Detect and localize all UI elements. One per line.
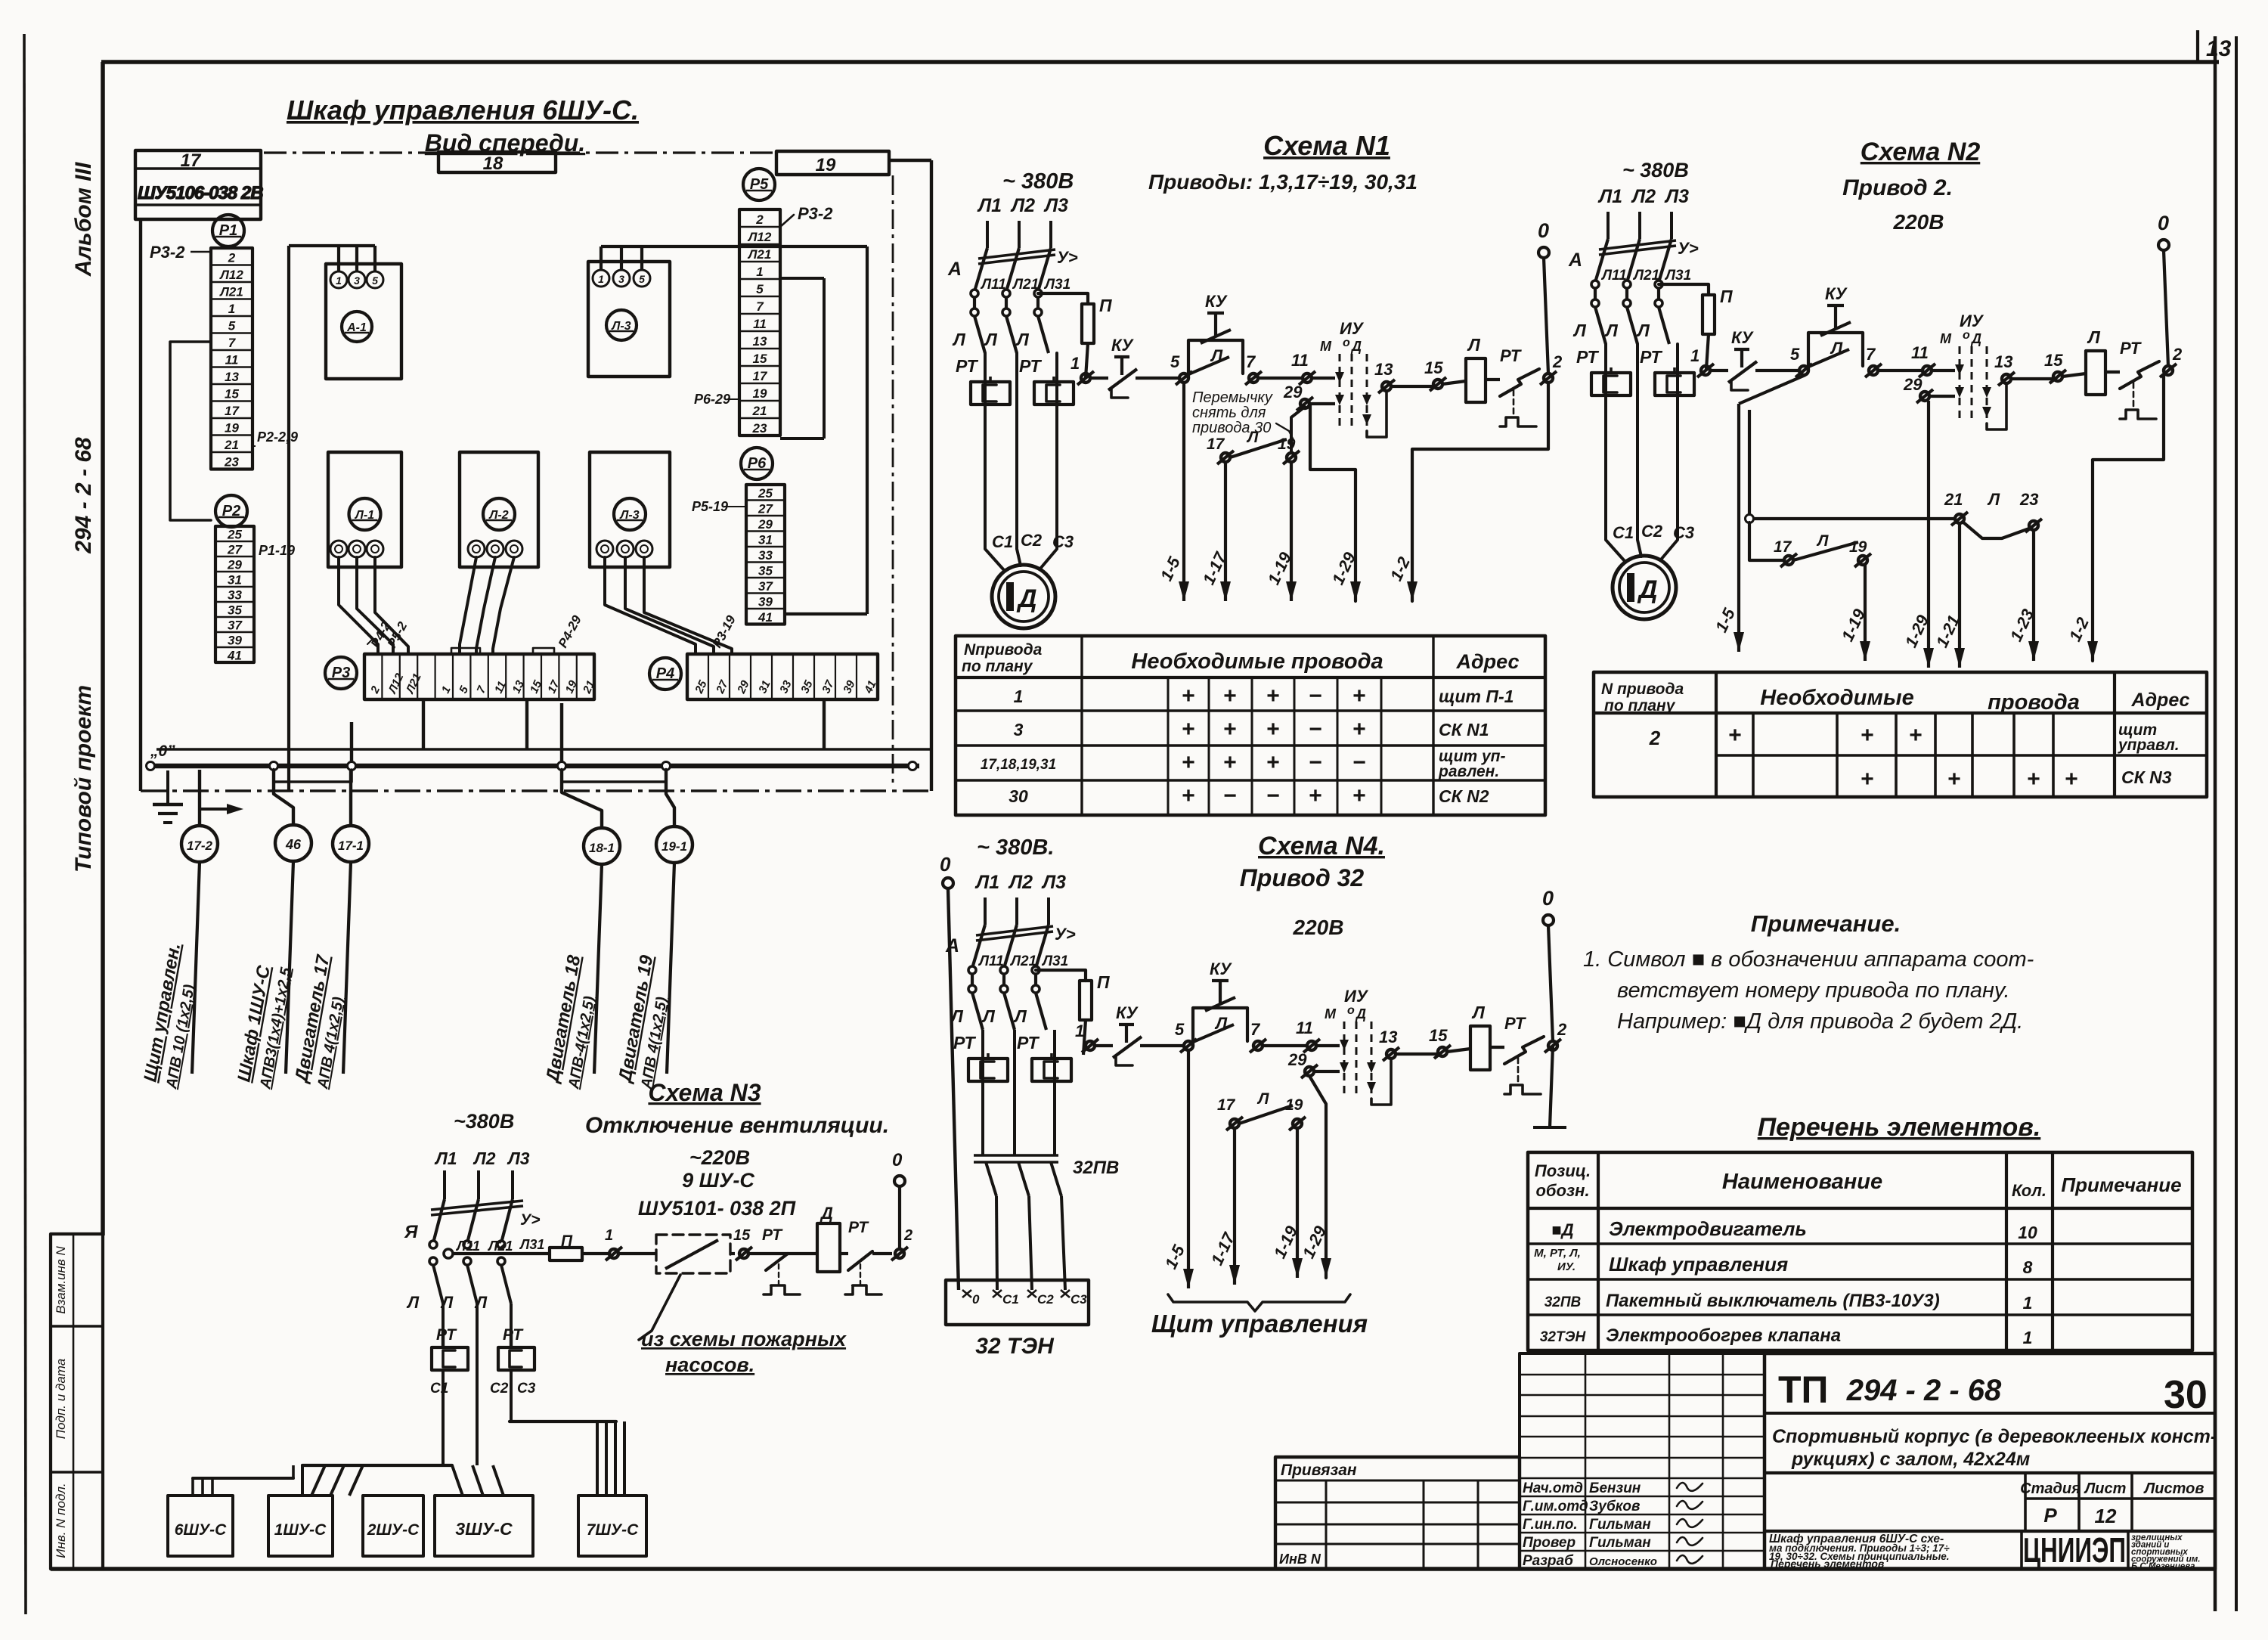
svg-text:7: 7 [1866,345,1876,364]
svg-text:15: 15 [753,352,767,366]
svg-text:Д: Д [1355,1006,1366,1022]
svg-text:Л1: Л1 [974,872,999,893]
svg-text:Подп. и дата: Подп. и дата [54,1359,68,1439]
svg-text:39: 39 [758,594,773,609]
scheme N2 wire to panel 1-5 [1739,375,1805,404]
svg-text:КУ: КУ [1205,292,1228,311]
scheme N2 holding branch [1746,515,1754,523]
svg-text:−: − [1309,717,1322,742]
scheme N1 contactor contacts L [973,297,976,308]
svg-text:+: + [1182,684,1195,708]
cable label Dvigatel 18 [541,953,605,1091]
svg-text:2: 2 [1557,1020,1567,1039]
svg-text:29: 29 [1903,375,1923,394]
svg-text:30: 30 [1009,786,1028,806]
svg-text:ЦНИИЭП: ЦНИИЭП [2023,1530,2126,1570]
svg-text:Гильман: Гильман [1589,1535,1651,1551]
svg-text:Д: Д [1350,339,1362,354]
svg-text:Л11: Л11 [1600,268,1627,284]
svg-text:Л: Л [1256,1090,1269,1108]
svg-text:привода 30: привода 30 [1192,420,1271,436]
scheme N4 wire to panel 1-29 [1309,1076,1326,1278]
svg-text:Л21: Л21 [404,671,424,696]
svg-text:2: 2 [1552,352,1563,371]
wires L-1 to terminal block [339,557,378,654]
svg-text:РТ: РТ [762,1226,783,1244]
svg-text:по плану: по плану [1604,697,1676,715]
svg-text:Nпривода: Nпривода [964,641,1043,659]
svg-text:3: 3 [354,274,360,287]
scheme N3 remote contact (dashed box) [656,1235,730,1273]
svg-text:19: 19 [225,420,239,435]
svg-text:15: 15 [1429,1026,1448,1045]
svg-text:5: 5 [228,318,236,333]
svg-text:9 ШУ-С: 9 ШУ-С [682,1169,754,1192]
svg-text:21: 21 [1944,490,1963,509]
svg-text:обозн.: обозн. [1535,1181,1589,1200]
inner rail [156,748,931,751]
svg-text:7: 7 [756,299,764,314]
svg-text:294 - 2 - 68: 294 - 2 - 68 [71,437,96,554]
svg-text:19: 19 [816,155,836,175]
svg-text:17: 17 [225,404,240,418]
svg-text:СК N2: СК N2 [1439,786,1489,806]
svg-text:Адрес: Адрес [1455,650,1519,673]
svg-text:27: 27 [758,501,773,516]
svg-text:Л2: Л2 [1631,186,1656,207]
svg-text:С3: С3 [517,1381,536,1397]
svg-text:Схема N2: Схема N2 [1861,138,1981,166]
scheme N3 leader from pump scheme [639,1275,680,1340]
wires L-2 to terminal block [460,557,476,654]
svg-text:Р3-2: Р3-2 [150,243,185,262]
svg-text:13: 13 [753,334,767,349]
terminal strip P1-19 (left lower) [215,526,254,662]
scheme N4 wires to 32TEN [996,1196,997,1290]
svg-text:равлен.: равлен. [1438,763,1499,780]
svg-text:46: 46 [285,837,302,852]
scheme N2 stop button KU [1710,369,1728,372]
svg-text:Позиц.: Позиц. [1535,1161,1591,1180]
svg-text:8: 8 [2023,1257,2033,1277]
svg-text:■Д: ■Д [1551,1220,1573,1239]
svg-text:+: + [1728,723,1742,748]
svg-text:Я: Я [404,1222,418,1242]
cable circle 17-1 [349,770,352,826]
svg-text:3: 3 [1014,720,1024,739]
svg-text:Схема N1: Схема N1 [1263,130,1390,161]
svg-text:5: 5 [1175,1020,1185,1039]
svg-text:Б.С.Мезенцева: Б.С.Мезенцева [2131,1562,2195,1571]
scheme N4 heater box 32TEN [946,1280,1089,1325]
svg-text:Необходимые: Необходимые [1760,686,1913,710]
svg-text:Листов: Листов [2143,1480,2204,1497]
svg-text:из схемы пожарных: из схемы пожарных [641,1328,847,1350]
drawing frame border [101,60,2219,64]
svg-text:Лист: Лист [2084,1480,2127,1497]
svg-text:11: 11 [1911,343,1929,362]
svg-text:о: о [1343,336,1350,349]
sheet number 13 [2196,30,2199,62]
svg-text:17-1: 17-1 [338,839,364,853]
bus loop links [274,770,352,782]
svg-text:Д: Д [820,1204,833,1223]
svg-text:С2: С2 [1037,1292,1054,1307]
svg-text:Л: Л [1246,429,1259,446]
svg-text:Л: Л [984,330,998,349]
wire bundle to 7ShU-S [510,1420,616,1423]
svg-text:Л3: Л3 [1041,872,1066,893]
cable circle 17-2 [198,770,201,826]
svg-text:Л1: Л1 [1597,186,1622,207]
svg-text:11: 11 [1291,351,1309,370]
cabinet box 6ShU-S [168,1496,233,1556]
cable label Dvigatel 19 [614,953,677,1091]
svg-text:12: 12 [2095,1505,2117,1527]
wire rail over 3ShU-S [302,1464,452,1467]
svg-text:1: 1 [1690,346,1699,365]
svg-text:2: 2 [228,250,236,265]
bottom-left stamp column [51,1234,103,1569]
title block organization logo TSNIIEP [2020,1531,2023,1569]
svg-text:+: + [1182,750,1195,775]
svg-text:У>: У> [1055,925,1076,944]
svg-text:КУ: КУ [1111,336,1135,355]
svg-text:−: − [1223,783,1237,808]
svg-text:С3: С3 [1070,1292,1087,1307]
svg-text:ИУ.: ИУ. [1557,1260,1576,1273]
svg-text:35: 35 [798,678,816,696]
svg-text:41: 41 [227,648,242,662]
svg-text:Р6-29: Р6-29 [694,392,730,407]
svg-text:+: + [1182,783,1195,808]
svg-text:А: А [947,259,962,280]
svg-text:Например: ■Д для привода 2 б: Например: ■Д для привода 2 будет 2Д. [1617,1009,2023,1034]
svg-text:Л3: Л3 [507,1149,530,1168]
svg-text:0: 0 [972,1292,980,1307]
svg-text:23: 23 [2019,490,2038,509]
dash-dot inner boundary [892,175,894,786]
svg-text:~380В: ~380В [454,1110,514,1133]
svg-text:5: 5 [639,273,645,285]
svg-text:25: 25 [692,678,710,696]
bottom terminal block P4 [649,658,681,690]
cable circle 19-1 [666,770,674,826]
scheme N3 phase stubs [443,1170,446,1199]
svg-text:2: 2 [2172,345,2183,364]
svg-text:У>: У> [1057,248,1078,267]
svg-text:35: 35 [758,563,773,578]
svg-text:РТ: РТ [2120,339,2142,358]
wire left riser [287,246,290,791]
svg-text:Л3: Л3 [1043,195,1068,216]
svg-text:Л: Л [950,1006,964,1026]
svg-text:25: 25 [227,527,242,541]
terminal strip side link [170,342,211,520]
svg-text:РТ: РТ [503,1326,524,1344]
svg-text:−: − [1309,684,1322,708]
scheme N1 wiring table [956,636,1545,815]
svg-text:13: 13 [2206,36,2232,61]
svg-text:0: 0 [1538,219,1549,242]
svg-text:29: 29 [227,557,242,572]
device symbol P1 [212,215,244,246]
svg-text:27: 27 [714,678,731,696]
scheme N1 wire to panel 1-5 [1182,383,1185,601]
svg-text:+: + [2065,767,2078,792]
svg-text:7: 7 [1246,352,1256,371]
svg-text:+: + [1947,767,1961,792]
svg-text:С2: С2 [1641,522,1663,541]
svg-text:27: 27 [227,542,243,556]
svg-text:0: 0 [1542,887,1554,910]
svg-text:33: 33 [228,587,242,602]
svg-text:13: 13 [225,370,239,384]
svg-text:М: М [1320,339,1332,354]
svg-text:М: М [1940,331,1952,346]
cable circle 46 [274,770,293,825]
svg-text:Л11: Л11 [455,1239,480,1254]
svg-text:7: 7 [475,684,489,695]
svg-text:Л: Л [1572,321,1587,340]
svg-text:Л21: Л21 [487,1239,513,1254]
svg-text:провода: провода [1988,690,2080,715]
svg-text:Наименование: Наименование [1722,1170,1882,1194]
svg-text:−: − [1309,750,1322,775]
svg-text:щит П-1: щит П-1 [1439,687,1514,706]
svg-text:Д: Д [1637,575,1658,604]
svg-text:Л21: Л21 [218,284,243,299]
svg-text:рукциях) с залом, 42х24м: рукциях) с залом, 42х24м [1791,1449,2030,1470]
svg-text:Нач.отд: Нач.отд [1523,1480,1583,1496]
svg-text:~ 380В: ~ 380В [1622,159,1689,181]
scheme N1 wire to panel 1-17 [1224,462,1227,601]
svg-text:+: + [1861,767,1874,792]
svg-text:2: 2 [903,1227,912,1244]
svg-text:СК N1: СК N1 [1439,720,1489,739]
cabinet outline [139,219,142,791]
header box 18 [438,152,556,172]
svg-text:~220В: ~220В [689,1146,750,1169]
svg-text:Л1: Л1 [977,195,1002,216]
scheme N1 wire to panel 1-29 [1310,404,1356,601]
scheme N4 start button KU [1193,1008,1247,1046]
svg-text:ИУ: ИУ [1340,319,1365,338]
svg-text:Инв. N подл.: Инв. N подл. [54,1483,68,1558]
svg-text:Р2-2;9: Р2-2;9 [257,429,298,445]
svg-text:+: + [1266,717,1280,742]
svg-text:Л: Л [1604,321,1619,340]
svg-text:2ШУ-С: 2ШУ-С [367,1521,420,1539]
svg-text:29: 29 [735,678,752,696]
svg-text:18: 18 [483,153,503,174]
svg-text:15: 15 [2044,351,2063,370]
svg-text:Л2: Л2 [1010,195,1035,216]
scheme N3 wires to cabinets [442,1331,445,1347]
svg-text:32ПВ: 32ПВ [1073,1158,1119,1178]
svg-text:15: 15 [733,1227,751,1244]
scheme N1 start button KU [1188,340,1243,378]
svg-text:+: + [2027,767,2040,792]
svg-text:5: 5 [1170,352,1180,371]
svg-text:П: П [1099,296,1112,315]
svg-text:Бензин: Бензин [1589,1480,1641,1496]
svg-text:+: + [1223,717,1237,742]
svg-text:Необходимые провода: Необходимые провода [1131,649,1383,674]
svg-text:0: 0 [2158,212,2169,234]
scheme N2 wire to panel 1-21 [1958,523,1961,668]
zero bus [150,764,919,769]
svg-text:Л: Л [1015,330,1030,349]
svg-text:33: 33 [777,678,795,696]
svg-text:+: + [1266,684,1280,708]
svg-text:41: 41 [758,610,773,625]
svg-text:РТ: РТ [1576,347,1599,367]
title block main area [1765,1353,2215,1569]
wires L-3 to right terminal block [605,557,696,654]
scheme N4 wire to panel 1-19 [1296,1128,1299,1278]
svg-text:6ШУ-С: 6ШУ-С [175,1521,227,1539]
svg-text:Схема N4.: Схема N4. [1258,832,1385,860]
header box 17 / ShU5106-038.2V [135,150,261,219]
svg-text:РТ: РТ [953,1033,976,1053]
scheme N4 zero line extension [1550,1046,1553,1127]
wire from A-1 to left riser [337,246,340,271]
svg-text:+: + [1352,684,1366,708]
svg-text:21: 21 [752,404,767,418]
svg-text:5: 5 [756,282,764,296]
cable label Shchit upravlen [139,941,204,1091]
wire rail to 6ShU-S [193,1477,293,1480]
svg-text:13: 13 [510,678,527,696]
scheme N1 motor D [992,565,1055,628]
svg-text:Л21: Л21 [1632,268,1659,284]
svg-text:Щит управления: Щит управления [1151,1310,1368,1338]
svg-text:Электрообогрев клапана: Электрообогрев клапана [1606,1325,1841,1346]
svg-text:17: 17 [1207,436,1225,453]
svg-text:−: − [1266,783,1280,808]
svg-text:1: 1 [228,302,235,316]
svg-text:КУ: КУ [1731,328,1755,347]
svg-text:Стадия: Стадия [2020,1480,2081,1497]
svg-text:17: 17 [1217,1096,1236,1114]
scheme N4 phase stubs [984,898,987,925]
svg-text:1: 1 [2023,1328,2033,1347]
svg-text:1: 1 [1070,354,1080,373]
svg-text:ветствует номеру привода по: ветствует номеру привода по плану. [1617,978,2010,1003]
svg-text:+: + [1861,723,1874,748]
scheme N4 stop button KU [1095,1044,1113,1047]
scheme N4 pole wires down [981,1030,984,1155]
svg-text:17-2: 17-2 [187,839,213,853]
svg-text:1: 1 [598,273,604,285]
cable label Shkaf 1ShU-S [233,962,295,1091]
svg-text:Л1: Л1 [434,1149,457,1168]
svg-text:С1: С1 [1613,523,1634,542]
cable label Dvigatel 17 [290,953,354,1091]
wire from L-3 upper to right riser [600,246,603,270]
svg-text:Л12: Л12 [386,671,407,696]
svg-text:Л: Л [1636,321,1650,340]
cable circle 18-1 [562,770,602,828]
svg-text:С1: С1 [1002,1292,1019,1307]
svg-text:29: 29 [1283,383,1303,401]
svg-text:Р5-19: Р5-19 [692,499,728,514]
title block signature grid [1520,1353,1765,1569]
svg-text:1. Символ ■ в обозначении апп: 1. Символ ■ в обозначении аппарата соот- [1583,947,2034,972]
svg-text:~ 380В: ~ 380В [1002,169,1074,194]
svg-text:РТ: РТ [1017,1033,1039,1053]
svg-text:Приводы: 1,3,17÷19, 30,31: Приводы: 1,3,17÷19, 30,31 [1148,170,1417,194]
device symbol P6 [741,448,773,479]
svg-text:37: 37 [820,678,837,696]
svg-text:10: 10 [2018,1223,2037,1242]
svg-text:А: А [1568,250,1582,271]
svg-text:Л12: Л12 [218,268,243,282]
contactor unit A-1 [326,264,401,379]
svg-text:Перечень элементов.: Перечень элементов. [1758,1113,2041,1142]
svg-text:ИУ: ИУ [1344,987,1369,1006]
svg-text:5: 5 [457,684,471,695]
svg-text:32 ТЭН: 32 ТЭН [975,1334,1055,1359]
svg-text:Л: Л [2087,327,2101,347]
svg-text:Л: Л [474,1293,488,1312]
svg-text:~ 380В.: ~ 380В. [977,836,1054,860]
header box 19 [776,151,889,175]
svg-text:Р4-29: Р4-29 [556,612,584,649]
bottom terminal block P3 [325,657,357,689]
svg-text:Шкаф управления 6ШУ-С.: Шкаф управления 6ШУ-С. [287,95,639,126]
terminal strip P5-19 (right lower) [746,485,785,625]
svg-text:Л21: Л21 [1009,953,1036,969]
svg-text:1-5: 1-5 [1157,553,1184,584]
scheme N3 control line [444,1249,453,1258]
svg-text:М: М [1325,1006,1337,1022]
svg-text:Электродвигатель: Электродвигатель [1609,1217,1807,1240]
scheme N2 fuse P [1659,284,1709,295]
svg-text:М, РТ, Л,: М, РТ, Л, [1534,1247,1581,1260]
svg-text:37: 37 [758,579,773,594]
svg-text:11: 11 [225,352,239,367]
cabinet box 2ShU-S [363,1496,423,1556]
svg-text:Схема N3: Схема N3 [648,1079,761,1106]
cabinet box 1ShU-S [268,1496,333,1556]
svg-text:13: 13 [1994,352,2012,371]
svg-text:РТ: РТ [956,356,978,376]
svg-text:0: 0 [940,853,951,876]
svg-text:Г.ин.по.: Г.ин.по. [1523,1517,1578,1533]
svg-text:220В: 220В [1893,210,1944,234]
svg-text:П: П [1097,972,1110,992]
svg-text:Л: Л [406,1293,420,1312]
cabinet box 3ShU-S [435,1496,533,1556]
wire right riser [866,246,869,614]
svg-text:Альбом III: Альбом III [71,162,96,277]
svg-text:Перечень элементов: Перечень элементов [1771,1558,1885,1570]
svg-text:Отключение вентиляции.: Отключение вентиляции. [585,1113,889,1138]
svg-text:+: + [1352,783,1366,808]
svg-text:Взам.инв N: Взам.инв N [54,1246,68,1314]
svg-text:1: 1 [605,1227,613,1244]
scheme N2 wiring table [1594,672,2207,797]
svg-text:Олсносенко: Олсносенко [1589,1555,1657,1568]
svg-text:Л: Л [1987,490,2000,509]
svg-text:ТП: ТП [1778,1369,1828,1411]
svg-text:7ШУ-С: 7ШУ-С [587,1521,639,1539]
svg-text:Л: Л [440,1293,454,1312]
svg-text:31: 31 [758,532,773,547]
device symbol P5 [743,169,775,200]
